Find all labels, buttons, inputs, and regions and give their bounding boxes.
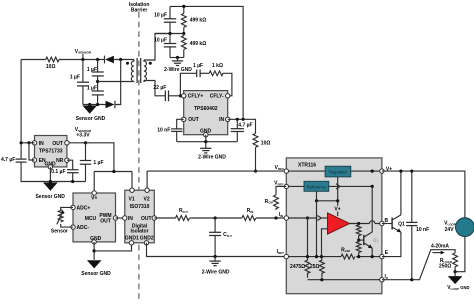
IC TPS71733 block [35,136,67,168]
wire: regulator bottom tee [317,177,338,206]
wire: V_REG through regulator to V+ [286,170,382,172]
svg-text:B: B [385,218,389,224]
wire: base lead Q1 internal [359,239,364,241]
diode D2 (bottom, pointing right) [106,101,115,109]
ground Sensor GND (LDO) [35,183,65,200]
svg-text:OUT: OUT [52,141,63,147]
sensor element (variable resistor) [51,209,68,235]
svg-text:MCU: MCU [85,216,97,222]
svg-text:499 kΩ: 499 kΩ [190,41,207,47]
capacitor 1uF (LDO out) [80,143,104,182]
svg-text:CFLT: CFLT [223,232,232,238]
junction dot opamp supply [336,199,339,202]
junction dot top rail / 499k [182,5,185,8]
svg-text:TPS60402: TPS60402 [194,106,218,112]
resistor 25 ohm [310,257,324,278]
wire: PWM to ISO IN [116,217,125,219]
node V_REG label [275,165,286,171]
wire: V_REG rail to V2 and XTR116 [147,170,286,172]
pin I_O [380,274,389,282]
svg-text:Reference: Reference [307,185,327,190]
svg-text:2475Ω: 2475Ω [290,264,305,270]
pin E [380,250,389,259]
pin ADC+ [71,205,75,209]
wire: ISO OUT to R_FLT [154,217,175,219]
svg-text:IIN: IIN [279,212,283,218]
svg-text:24V: 24V [445,227,455,233]
ground V_LOOP GND [447,272,469,291]
junction dot Vreg node [254,170,257,173]
wire: external collector to V+ rail [400,171,402,215]
wire: I_RET / E rail inside [286,256,382,258]
junction dot base node [357,239,360,242]
transistor Q1 (external) [392,215,405,233]
junction dot R_CM bottom [274,216,277,219]
wire: +3.3V distribution [67,143,147,193]
node V_SENSOR label [75,49,92,59]
svg-text:25Ω: 25Ω [310,264,320,270]
isolation barrier label [129,2,150,13]
svg-text:IRET: IRET [277,249,285,255]
svg-text:1 µF: 1 µF [70,75,80,81]
wire: V+ loop rail [382,171,465,218]
svg-text:CFLY-: CFLY- [210,94,224,100]
svg-text:Sensor GND: Sensor GND [76,116,106,122]
junction dot C_FLT tap [214,216,217,219]
wire: I_O run with rise [382,250,455,280]
node V_SENSOR +3.3V label [75,127,92,139]
resistor R_IN [242,208,256,220]
wire: B to external base [382,223,392,225]
transformer T1 phasing dot left [126,62,129,65]
IC TPS60402 block [184,91,228,135]
wire: internal emitter to E rail [371,248,373,257]
svg-text:250Ω: 250Ω [439,264,451,270]
svg-text:4-20mA: 4-20mA [431,243,449,249]
svg-text:RIN: RIN [247,208,254,214]
wire: non-inverting input [322,229,328,257]
ground 2-Wire GND (C_FLT) [202,257,230,276]
pin PWM OUT [113,216,117,220]
svg-text:IN: IN [219,117,224,123]
svg-text:Sensor GND: Sensor GND [35,194,65,200]
pin OUT (TPS60402) [182,117,186,121]
wire: 2475 tap drop [307,218,309,257]
svg-text:10Ω: 10Ω [261,141,271,147]
wire: TPS60402 OUT loop to 10nF [177,119,184,129]
regulator box [325,166,351,177]
svg-text:Regulator: Regulator [329,170,348,175]
capacitor 10uF (upper) [154,6,176,33]
junction dot mid rail [96,80,99,83]
junction dot 10nF bottom [410,278,413,281]
IC MCU block [73,193,116,242]
svg-text:1 µF: 1 µF [87,67,97,73]
junction dot emitter rail [371,255,374,258]
wire: reference output with arrow [329,184,372,189]
capacitor 1uF (stack upper) [87,60,104,82]
svg-text:VLOOP: VLOOP [444,221,456,227]
junction dot input rail [20,141,23,144]
resistor base upper [356,224,361,241]
svg-text:Q1: Q1 [398,222,405,228]
junction dot 2475 top [306,255,309,258]
svg-text:0.1 µF: 0.1 µF [51,169,65,175]
pin OUT (ISO7310) [152,216,156,220]
svg-text:4.7 µF: 4.7 µF [1,157,15,163]
wire: MCU gnd stem [93,242,95,260]
node 4-20mA arrow [431,243,449,254]
capacitor 1uF (stack lower) [87,82,104,105]
resistor base lower [356,240,361,256]
junction dot MCU gnd [93,249,96,252]
wire: LDO ground rail y=181 [50,167,85,182]
pin OUT (TPS71733) [65,141,69,145]
wire: IN pin feed [21,142,34,144]
capacitor C_FLT [209,218,232,257]
svg-text:Isolator: Isolator [130,229,148,235]
pin GND2 [144,241,148,245]
junction dot divider ground [176,56,179,59]
junction dot cap3 bottom [96,103,99,106]
pin I_RET [277,249,289,259]
junction dot reference return [315,199,318,202]
junction dot mid 499k [182,32,185,35]
wire: GND2 to 2-wire return rail [147,243,287,257]
resistor 2475 ohm [290,257,310,278]
resistor R_FLT [176,208,190,220]
svg-text:2-Wire GND: 2-Wire GND [202,269,230,275]
wire: right winding top to divider mid [144,34,170,61]
reference box [304,181,329,191]
wire: sensor supply top rail y=59 [21,59,134,61]
svg-text:Sensor GND: Sensor GND [81,271,111,277]
capacitor 4.7uF (input) [1,157,27,163]
svg-text:CFLY+: CFLY+ [188,94,204,100]
junction dot V_SENSOR [81,58,84,61]
transformer T1 core [137,58,141,83]
resistor R_LIM [341,247,355,259]
wire: EN tie [29,143,35,160]
wire: GND pin stem [205,135,207,148]
wire: 2-wire top rail y=5.9 [170,6,243,119]
resistor R_LOAD 250 ohm [439,253,458,272]
pin IN (ISO7310) [123,216,127,220]
pin IN (TPS71733) [32,141,36,145]
junction dot 10nF top [410,170,413,173]
junction dot 25 top [320,255,323,258]
wire: V_REF into reference [286,185,304,187]
pin CFLY+ [182,94,186,98]
svg-text:TPS71733: TPS71733 [39,149,63,155]
wire: sensor bottom rail y=104 [83,60,121,105]
wire: left vertical input rail x=20.6 [21,60,50,182]
wire: internal collector to V+ [371,186,373,232]
junction dot top rail tap [242,118,245,121]
transformer T1 left winding [131,60,134,82]
pin GND (TPS71733) [48,165,52,169]
wire: loop return from source [455,237,465,272]
svg-text:499 kΩ: 499 kΩ [190,18,207,24]
junction dot ref return rail [315,255,318,258]
svg-text:Q1: Q1 [373,238,379,243]
svg-text:V1: V1 [129,196,135,202]
IC ISO7310 block [125,190,155,243]
svg-text:V2: V2 [144,196,150,202]
wire: NR to 0.1uF [67,160,73,169]
wire: TPS60402 ground rail y=141.2 [177,141,238,143]
junction dot cap2 tap [96,58,99,61]
junction dot mid 10uF [168,32,171,35]
diode D1 (top, pointing left) [105,56,114,64]
capacitor 10nF (TPS60402 out) [157,128,182,142]
junction dot EN tap [27,141,30,144]
wire: IN pin rail [228,119,256,171]
svg-text:10 nF: 10 nF [157,128,170,134]
source V_LOOP 24V [444,218,474,237]
svg-text:OUT: OUT [100,218,111,224]
svg-text:1 µF: 1 µF [193,63,203,69]
svg-text:V+: V+ [91,195,97,201]
wire: I_O bottom rail [308,279,382,281]
junction dot gnd rail 1 [49,180,52,183]
svg-text:2-Wire GND: 2-Wire GND [198,155,226,161]
junction dot +3.3V split [112,170,115,173]
svg-text:4.7 µF: 4.7 µF [238,123,252,129]
resistor R_CM [265,186,287,210]
pin V1 [130,188,134,192]
pin GND (MCU) [92,240,96,244]
junction dot GND rail [204,140,207,143]
op-amp A1 [328,213,350,234]
resistor 1k (flying loop) [209,63,223,76]
svg-text:10 µF: 10 µF [154,12,167,18]
junction dot I_IN / 2475 tap [306,216,309,219]
pin V+ (XTR116) [380,167,393,174]
transformer T1 phasing dot right [149,62,152,65]
wire: R_FLT to R_IN [190,217,242,219]
svg-text:XTR116: XTR116 [298,163,316,169]
wire: divider bottom tie [170,57,184,59]
svg-text:22 µF: 22 µF [153,85,166,91]
svg-text:10Ω: 10Ω [46,64,56,70]
pin GND (TPS60402) [204,133,208,137]
svg-text:1 kΩ: 1 kΩ [212,63,223,69]
capacitor 22uF [153,85,183,101]
capacitor 10uF (lower) [154,34,176,58]
junction dot 4.7uF tap [236,118,239,121]
ground Sensor GND (MCU) [81,260,111,277]
junction dot reference/V+ drop [371,185,374,188]
capacitor 1uF (flying loop) [193,63,203,77]
junction dot V+ internal [371,170,374,173]
svg-text:ADC+: ADC+ [77,205,91,211]
wire: mid rail to winding bottom [98,81,134,83]
wire: right winding bottom to 22uF [144,81,165,96]
pin V_REF [274,181,288,189]
junction dot gnd rail 2 [71,180,74,183]
svg-text:VREF: VREF [274,181,284,187]
IC XTR116 block [286,158,382,294]
svg-text:Barrier: Barrier [131,7,147,13]
svg-text:+3.3V: +3.3V [76,133,90,139]
pin EN [32,158,36,162]
svg-text:IN: IN [128,216,133,222]
wire: divider mid rail y=33 [155,33,184,35]
capacitor 0.1uF (NR) [51,169,78,181]
pin B [380,218,389,226]
junction dot 25 bottom [320,278,323,281]
capacitor 1uF (sensor rail #1) [70,60,89,105]
wire: R_IN to I_IN pin [256,217,286,219]
pin NR [65,158,69,162]
ground Sensor GND (rectifier) [76,103,106,122]
node V+ label (opamp) [334,207,340,217]
junction dot CFLY+ loop tap [179,94,182,97]
pin V2 [145,188,149,192]
resistor 499k (upper) [181,6,206,33]
junction dot base network tap [357,222,360,225]
wire: inverting input with arrow [286,216,327,221]
wire: flying cap loop [180,73,232,96]
junction dot C_FLT gnd [214,255,217,258]
svg-text:ADC-: ADC- [77,225,90,231]
svg-text:RFLT: RFLT [179,208,188,214]
transformer T1 right winding [144,60,147,81]
svg-text:RCM: RCM [265,199,274,205]
pin IN (TPS60402) [226,117,230,121]
junction dot 1uF out tap [84,141,87,144]
wire: reference return drop to rail [316,201,318,257]
transistor Q1 (internal) [364,232,379,249]
wire: opamp output to B [350,221,382,224]
pin V_REG [283,165,288,173]
resistor 10 ohm (sensor input) [46,57,59,70]
resistor 10 ohm (Vreg feed) [253,134,270,148]
capacitor 4.7uF (loop supply) [231,119,253,141]
wire: sensor element leads [61,207,73,227]
svg-text:1 µF: 1 µF [93,160,103,166]
junction dot winding top node [119,58,122,61]
svg-text:10 nF: 10 nF [416,227,429,233]
wire: external emitter to E [382,232,401,257]
svg-text:IN: IN [39,141,44,147]
svg-text:OUT: OUT [141,216,152,222]
pin GND1 [129,241,133,245]
svg-text:1 µF: 1 µF [87,86,97,92]
resistor 499k (lower) [181,34,206,58]
svg-text:2-Wire GND: 2-Wire GND [164,67,192,73]
svg-text:10 µF: 10 µF [154,38,167,44]
ground 2-Wire GND (divider) [164,58,192,74]
isolation barrier dashed line [138,12,140,300]
ground 2-Wire GND (TPS60402) [198,148,226,160]
junction dot base network bottom [357,255,360,258]
pin I_IN [279,212,289,220]
pin CFLY- [226,94,230,98]
junction dot Q1 collector [399,170,402,173]
svg-text:NR: NR [56,158,64,164]
pin V+ (MCU) [92,191,96,195]
svg-text:Sensor: Sensor [51,228,68,234]
pin ADC- [71,225,75,229]
junction dot R_LOAD bottom [454,270,457,273]
capacitor 10nF (loop) [406,171,429,280]
svg-text:OUT: OUT [188,117,199,123]
svg-text:ISO7310: ISO7310 [130,204,150,210]
wire: GND1 tie to MCU gnd [94,243,131,251]
svg-text:RLIM: RLIM [341,247,350,253]
